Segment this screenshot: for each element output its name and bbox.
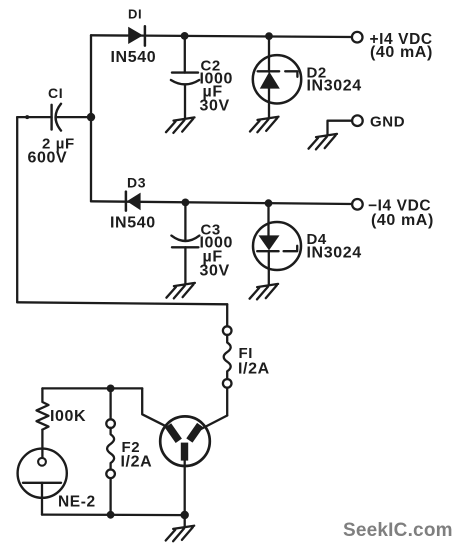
svg-text:NE-2: NE-2: [58, 494, 96, 511]
wire F1 bottom: [226, 388, 228, 416]
ground GND terminal: [309, 134, 338, 150]
terminal GND: [352, 115, 363, 126]
zener D2 triangle: [260, 72, 280, 89]
capacitor C3: [171, 236, 199, 248]
capacitor C1: [52, 104, 61, 131]
ground C2: [166, 117, 195, 132]
wire resistor feed horizontal: [42, 387, 142, 389]
svg-text:IN540: IN540: [111, 49, 157, 66]
svg-text:600V: 600V: [28, 150, 68, 167]
wire C2 branch: [184, 36, 186, 73]
svg-text:IN3024: IN3024: [307, 244, 362, 261]
wire D2 to ground: [268, 89, 270, 118]
wire D4 to ground: [268, 251, 270, 284]
wire negative rail: [91, 201, 352, 204]
diode D3: [127, 193, 141, 211]
svg-text:D3: D3: [127, 175, 146, 191]
zener D4 cathode bar: [257, 246, 297, 251]
wire top positive rail: [91, 35, 352, 37]
node junction F2 bottom: [107, 511, 115, 519]
wire plug bottom: [184, 461, 186, 516]
svg-text:I/2A: I/2A: [238, 361, 270, 378]
wire left edge vertical: [16, 117, 18, 302]
wire F1 top: [226, 304, 228, 326]
lamp electrode bar: [23, 482, 61, 484]
ground C3: [166, 283, 195, 299]
zener diode D4 circle: [253, 222, 301, 270]
wire bottom horizontal: [42, 513, 185, 516]
wire bottom feed horizontal: [17, 302, 227, 304]
plug right prong: [186, 423, 203, 443]
wire D2 branch: [268, 36, 270, 72]
svg-text:SeekIC.com: SeekIC.com: [343, 520, 453, 541]
svg-text:GND: GND: [370, 114, 405, 131]
svg-text:IN540: IN540: [110, 215, 156, 232]
wire C1 left: [17, 116, 51, 118]
svg-text:FI: FI: [239, 345, 254, 362]
svg-text:(40 mA): (40 mA): [370, 44, 433, 61]
node junction D2: [265, 32, 273, 40]
fuse F2 wire top: [109, 388, 111, 419]
zener diode D2 circle: [253, 55, 301, 103]
node junction F2 top: [107, 385, 115, 393]
terminal +14 VDC: [352, 32, 363, 43]
diode D1 cathode bar: [144, 26, 147, 45]
zener D4 triangle: [259, 235, 280, 250]
wire GND: [328, 121, 353, 135]
lamp electrode dot: [38, 458, 46, 466]
wire C1 right: [56, 116, 91, 118]
wire resistor to lamp: [41, 430, 43, 457]
node junction C1 rail: [87, 113, 95, 121]
svg-text:I/2A: I/2A: [121, 454, 153, 471]
node junction C3: [182, 199, 190, 207]
svg-text:I00K: I00K: [50, 408, 86, 425]
wire lamp bottom: [41, 483, 43, 515]
node junction D4: [265, 199, 273, 207]
diode D1: [128, 27, 143, 44]
ground D2: [250, 117, 279, 132]
wire ground stem bottom: [184, 515, 186, 526]
svg-text:30V: 30V: [200, 98, 230, 115]
ground bottom: [166, 526, 195, 542]
plug left prong: [165, 423, 182, 443]
wire C3 branch: [184, 202, 186, 239]
fuse F2 wire bottom: [109, 478, 111, 515]
diode D3 cathode bar: [125, 192, 128, 211]
node junction C2: [181, 32, 189, 40]
wire plug left down + diagonal: [142, 388, 172, 429]
fuse F2: [106, 419, 115, 428]
svg-text:(40 mA): (40 mA): [371, 212, 434, 229]
svg-text:DI: DI: [128, 7, 142, 22]
wire left vertical rail: [90, 35, 92, 201]
svg-text:IN3024: IN3024: [307, 77, 362, 94]
plug P1 circle: [160, 416, 210, 466]
node junction plug bottom: [181, 511, 189, 519]
svg-text:30V: 30V: [200, 263, 230, 280]
node small dot C1 left: [25, 115, 29, 119]
ground D4: [250, 284, 279, 300]
neon lamp NE-2 circle: [18, 449, 67, 498]
terminal -14 VDC: [352, 199, 363, 210]
fuse F1: [223, 326, 232, 335]
wire plug right diagonal: [200, 416, 227, 430]
wire C2 to ground: [184, 85, 186, 118]
wire D4 branch: [267, 203, 269, 235]
zener D2 cathode bar: [258, 71, 298, 77]
plug bottom prong: [181, 443, 188, 461]
svg-text:CI: CI: [48, 85, 63, 101]
resistor R1 100K: [37, 388, 49, 429]
capacitor C2: [171, 73, 199, 85]
wire C3 to ground: [184, 247, 186, 283]
